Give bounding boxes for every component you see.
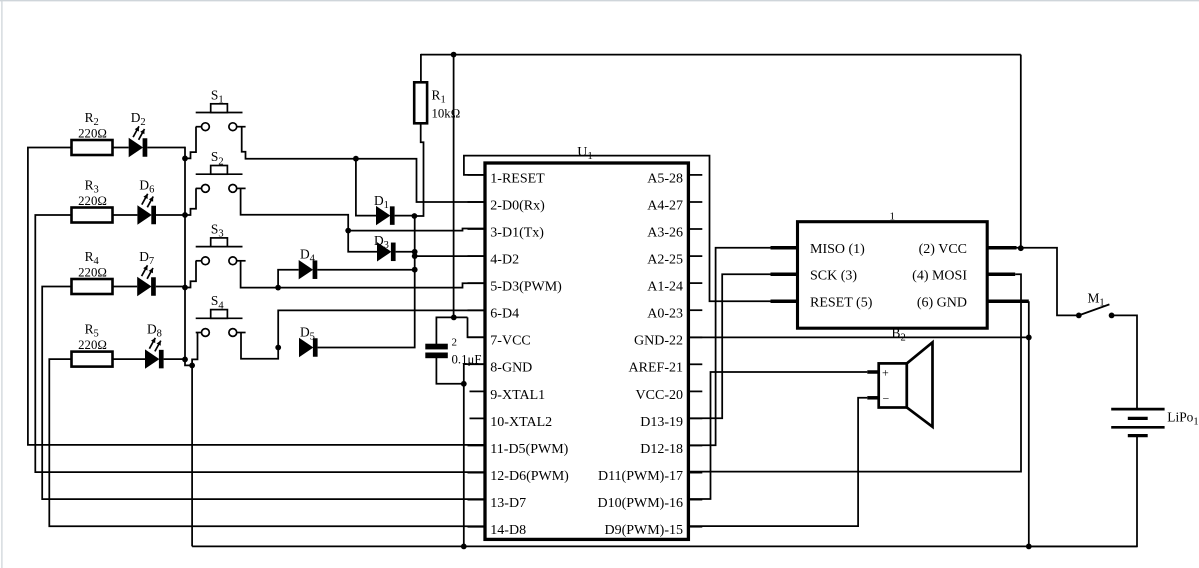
- wire S4 left contact to ladder: [192, 333, 197, 366]
- svg-text:3-D1(Tx): 3-D1(Tx): [490, 225, 544, 240]
- pushbutton S4: [196, 293, 246, 336]
- buzzer B2: [867, 325, 932, 427]
- svg-text:220Ω: 220Ω: [78, 127, 107, 141]
- battery LiPo1: [1111, 409, 1198, 436]
- wire cap bottom lead: [436, 358, 463, 384]
- svg-text:VCC-20: VCC-20: [636, 388, 683, 403]
- LED D8: [145, 322, 164, 369]
- wire S2 left contact to ladder: [185, 188, 196, 215]
- ISP header U2: [798, 210, 988, 328]
- svg-text:2: 2: [452, 337, 458, 349]
- wire VCC to switch M1: [1017, 248, 1077, 316]
- wire S1 to chip pin 2: [242, 127, 484, 202]
- svg-text:10kΩ: 10kΩ: [432, 107, 461, 121]
- svg-text:MISO (1): MISO (1): [810, 242, 865, 257]
- svg-text:A4-27: A4-27: [647, 198, 683, 213]
- page top border: [0, 0, 1199, 2]
- svg-text:(4) MOSI: (4) MOSI: [912, 268, 967, 283]
- wire R4 left return to bus: [42, 287, 484, 500]
- wire S3 left contact to ladder: [185, 261, 196, 288]
- wire pin1 RESET to ISP: [464, 156, 771, 302]
- diode D5: [299, 325, 318, 358]
- node S1 ladder junction: [182, 156, 188, 162]
- svg-text:1-RESET: 1-RESET: [490, 171, 545, 186]
- wire ISP GND drop: [1028, 301, 1030, 546]
- wire SCK to pin D13-19: [688, 274, 770, 418]
- wire R3 to D6: [113, 214, 138, 216]
- wire D3 cathode: [396, 251, 415, 253]
- node junction top rail: [451, 52, 457, 58]
- svg-text:A1-24: A1-24: [647, 280, 683, 295]
- svg-text:(6) GND: (6) GND: [917, 296, 967, 311]
- svg-text:RESET (5): RESET (5): [810, 296, 873, 311]
- wire MOSI to pin D11-17: [688, 274, 1021, 471]
- svg-text:D13-19: D13-19: [640, 415, 683, 430]
- svg-text:1: 1: [890, 210, 896, 222]
- node D5 anode junction: [275, 345, 281, 351]
- svg-text:AREF-21: AREF-21: [629, 361, 683, 376]
- wire cap top lead: [436, 317, 467, 344]
- node D1 cathode junction: [412, 213, 418, 219]
- svg-text:(2) VCC: (2) VCC: [919, 242, 967, 257]
- resistor R3: [72, 177, 113, 222]
- svg-text:220Ω: 220Ω: [78, 338, 107, 352]
- wire D5 cathode: [318, 216, 415, 348]
- IC U1 ATmega: [485, 145, 688, 540]
- wire R1 top lead: [420, 54, 422, 82]
- IC U1 pin stubs: [468, 175, 703, 527]
- svg-text:−: −: [883, 391, 890, 405]
- wire R2 to D2: [113, 147, 129, 149]
- svg-text:12-D6(PWM): 12-D6(PWM): [490, 469, 569, 484]
- wire R5 to D8: [113, 358, 146, 360]
- wire R4 to D7: [113, 286, 138, 288]
- svg-text:5-D3(PWM): 5-D3(PWM): [490, 280, 562, 295]
- LED D7: [137, 249, 156, 296]
- node D4 cathode junction: [412, 267, 418, 273]
- wire D6 to ladder: [156, 214, 185, 216]
- svg-text:8-GND: 8-GND: [490, 361, 532, 376]
- wire D2 to ladder: [147, 147, 185, 149]
- wire pin4: [415, 255, 484, 257]
- wire R5 left return to bus: [49, 359, 484, 526]
- wire VCC rail vertical: [453, 55, 455, 318]
- resistor R1: [414, 82, 460, 123]
- wire pin8 GND: [464, 364, 484, 384]
- svg-text:A3-26: A3-26: [647, 225, 683, 240]
- wire S2 to chip pin 3: [241, 188, 484, 230]
- wire ladder vertical: [184, 147, 186, 360]
- svg-text:A2-25: A2-25: [647, 253, 683, 268]
- switch M1: [1076, 290, 1115, 318]
- node ISP VCC junction: [1018, 245, 1024, 251]
- svg-text:6-D4: 6-D4: [490, 307, 519, 322]
- node S4 ladder junction: [189, 363, 195, 369]
- wire D1 cathode: [395, 215, 414, 217]
- wire MISO to pin D12-18: [688, 248, 770, 445]
- pushbutton S1: [196, 87, 246, 130]
- wire pin7 VCC: [468, 317, 485, 337]
- wire pin6 riser: [278, 310, 484, 347]
- resistor R2: [72, 110, 113, 155]
- svg-text:D9(PWM)-15: D9(PWM)-15: [604, 523, 683, 538]
- wire pin D9-15 to buzzer minus: [688, 398, 867, 526]
- wire GND-22: [688, 336, 1028, 338]
- diode D1: [374, 193, 395, 226]
- diode D4: [299, 247, 318, 280]
- node D3 anode junction: [345, 228, 351, 234]
- wire R1 bottom lead: [414, 123, 424, 216]
- wire R2 left return to bus: [28, 148, 484, 445]
- wire GND bus: [192, 545, 1137, 547]
- svg-text:14-D8: 14-D8: [490, 523, 526, 538]
- LED D6: [137, 177, 156, 224]
- svg-text:220Ω: 220Ω: [78, 266, 107, 280]
- resistor R4: [72, 249, 113, 294]
- ISP header pin stubs: [771, 248, 1029, 301]
- wire D4 anode branch: [278, 270, 299, 288]
- pushbutton S3: [196, 222, 246, 265]
- svg-text:11-D5(PWM): 11-D5(PWM): [490, 442, 568, 457]
- pushbutton S2: [196, 149, 246, 192]
- svg-text:D12-18: D12-18: [640, 442, 683, 457]
- page left border: [1, 0, 3, 568]
- svg-text:10-XTAL2: 10-XTAL2: [490, 415, 552, 430]
- node D6 ladder junction: [182, 212, 188, 218]
- node D1 anode junction: [353, 156, 359, 162]
- svg-text:7-VCC: 7-VCC: [490, 334, 530, 349]
- wire ladder jog: [185, 359, 192, 365]
- wire pin D10-16 to buzzer plus: [688, 372, 867, 499]
- node cap GND junction: [461, 381, 467, 387]
- diode D3: [374, 233, 396, 262]
- wire R3 left return to bus: [35, 215, 484, 472]
- svg-text:220Ω: 220Ω: [78, 194, 107, 208]
- svg-text:4-D2: 4-D2: [490, 253, 519, 268]
- svg-text:GND-22: GND-22: [634, 334, 683, 349]
- svg-text:2-D0(Rx): 2-D0(Rx): [490, 198, 545, 213]
- wire ladder to GND bus: [191, 365, 193, 546]
- wire GND drop: [463, 384, 465, 547]
- wire S3 to chip pin 5: [241, 261, 484, 288]
- node GND-22 junction: [1026, 335, 1032, 341]
- svg-text:13-D7: 13-D7: [490, 496, 526, 511]
- wire battery negative to GND bus: [1029, 436, 1137, 547]
- node D8 ladder junction: [182, 357, 188, 363]
- wire D3 anode branch: [348, 231, 377, 252]
- wire D1 anode branch: [356, 159, 376, 216]
- wire D8 to ladder: [164, 358, 186, 360]
- node D7 ladder junction: [182, 285, 188, 291]
- svg-text:9-XTAL1: 9-XTAL1: [490, 388, 545, 403]
- wire top rail to ISP VCC: [1020, 55, 1022, 249]
- svg-text:D10(PWM)-16: D10(PWM)-16: [597, 496, 683, 511]
- node VCC rail to cap junction: [451, 315, 457, 321]
- node pin4 junction: [412, 253, 418, 259]
- svg-text:D11(PWM)-17: D11(PWM)-17: [598, 469, 683, 484]
- capacitor C plates: [425, 337, 481, 367]
- svg-text:A0-23: A0-23: [647, 307, 683, 322]
- wire M1 to battery: [1112, 315, 1137, 409]
- wire D4 cathode: [317, 269, 414, 271]
- node GND bus ISP junction: [1026, 544, 1032, 550]
- node D3 cathode junction: [412, 249, 418, 255]
- node D4 anode junction: [275, 285, 281, 291]
- LED D2: [129, 110, 148, 157]
- wire top VCC rail: [421, 54, 1021, 56]
- resistor R5: [72, 322, 113, 367]
- wire S4 stair: [241, 333, 278, 359]
- svg-text:SCK (3): SCK (3): [810, 268, 857, 283]
- wire S1 left contact to ladder: [185, 127, 196, 159]
- svg-text:A5-28: A5-28: [647, 171, 683, 186]
- svg-text:+: +: [882, 366, 889, 380]
- node GND bus chip junction: [461, 544, 467, 550]
- wire D7 to ladder: [156, 286, 186, 288]
